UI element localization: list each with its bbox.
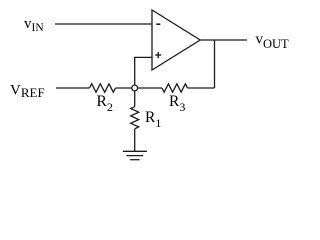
ground: [123, 151, 147, 159]
resistor R1: [131, 107, 139, 129]
node A junction: [132, 85, 138, 91]
wire R2 to node: [116, 87, 132, 89]
wire feedback vertical: [214, 40, 216, 88]
wire node to R1: [134, 91, 136, 107]
wire noninverting input: [135, 57, 152, 85]
resistor R3: [162, 84, 188, 92]
wire node to R3: [138, 87, 162, 89]
op-amp plus pin marker: [155, 52, 161, 58]
wire R1 to ground: [134, 129, 136, 152]
svg-text:R1: R1: [145, 109, 161, 130]
svg-text:vIN: vIN: [24, 16, 44, 34]
svg-text:vOUT: vOUT: [256, 32, 290, 52]
wire VREF lead: [56, 87, 90, 89]
op-amp minus pin marker: [156, 23, 160, 25]
svg-text:R2: R2: [97, 93, 113, 114]
op-amp U1: [152, 10, 200, 70]
resistor R2: [90, 84, 116, 92]
wire vIN to inverting input: [55, 23, 152, 25]
svg-text:R3: R3: [169, 93, 185, 114]
wire output to vOUT: [200, 39, 247, 41]
wire feedback bottom: [188, 87, 215, 89]
svg-text:VREF: VREF: [10, 83, 45, 101]
